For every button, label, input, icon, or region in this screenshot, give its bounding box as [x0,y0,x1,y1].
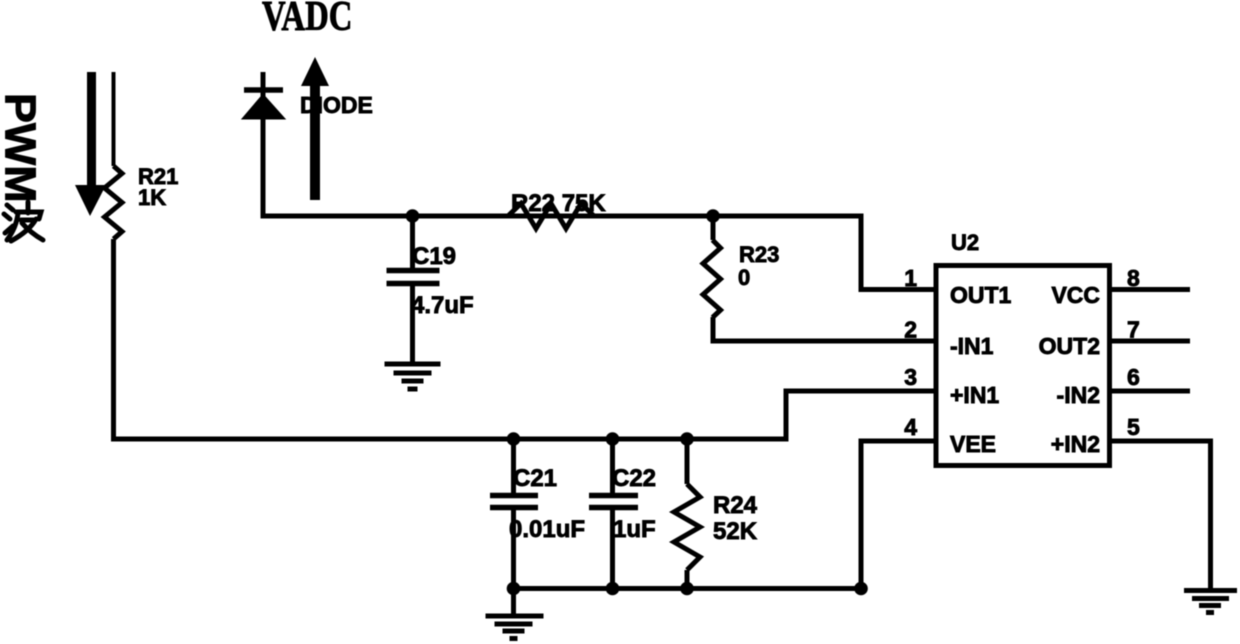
svg-text:1K: 1K [138,185,166,210]
svg-text:2: 2 [904,317,917,343]
svg-text:5: 5 [1127,414,1140,440]
svg-text:R22 75K: R22 75K [511,190,606,217]
svg-text:VEE: VEE [950,431,996,457]
svg-text:4.7uF: 4.7uF [411,292,474,319]
svg-text:R24: R24 [713,492,758,519]
svg-text:R23: R23 [739,242,779,267]
svg-text:U2: U2 [951,230,979,255]
svg-text:0: 0 [738,265,750,290]
svg-text:C21: C21 [513,465,557,492]
svg-text:8: 8 [1127,265,1140,291]
svg-text:VADC: VADC [262,0,352,40]
svg-text:C22: C22 [612,465,656,492]
svg-text:52K: 52K [713,518,758,545]
svg-text:+IN1: +IN1 [950,382,999,408]
svg-text:1uF: 1uF [613,516,656,543]
svg-text:-IN1: -IN1 [950,333,994,359]
svg-text:OUT1: OUT1 [950,282,1012,308]
svg-text:0.01uF: 0.01uF [509,516,585,543]
svg-text:-IN2: -IN2 [1057,382,1100,408]
svg-text:4: 4 [904,414,917,440]
svg-text:PWM: PWM [0,93,44,203]
svg-text:VCC: VCC [1051,282,1100,308]
svg-text:OUT2: OUT2 [1039,333,1100,359]
svg-text:DIODE: DIODE [300,92,373,118]
svg-text:1: 1 [904,265,917,291]
svg-text:7: 7 [1127,317,1140,343]
svg-text:C19: C19 [412,243,456,270]
svg-text:3: 3 [904,364,917,390]
svg-text:6: 6 [1127,364,1140,390]
svg-text:+IN2: +IN2 [1051,431,1100,457]
